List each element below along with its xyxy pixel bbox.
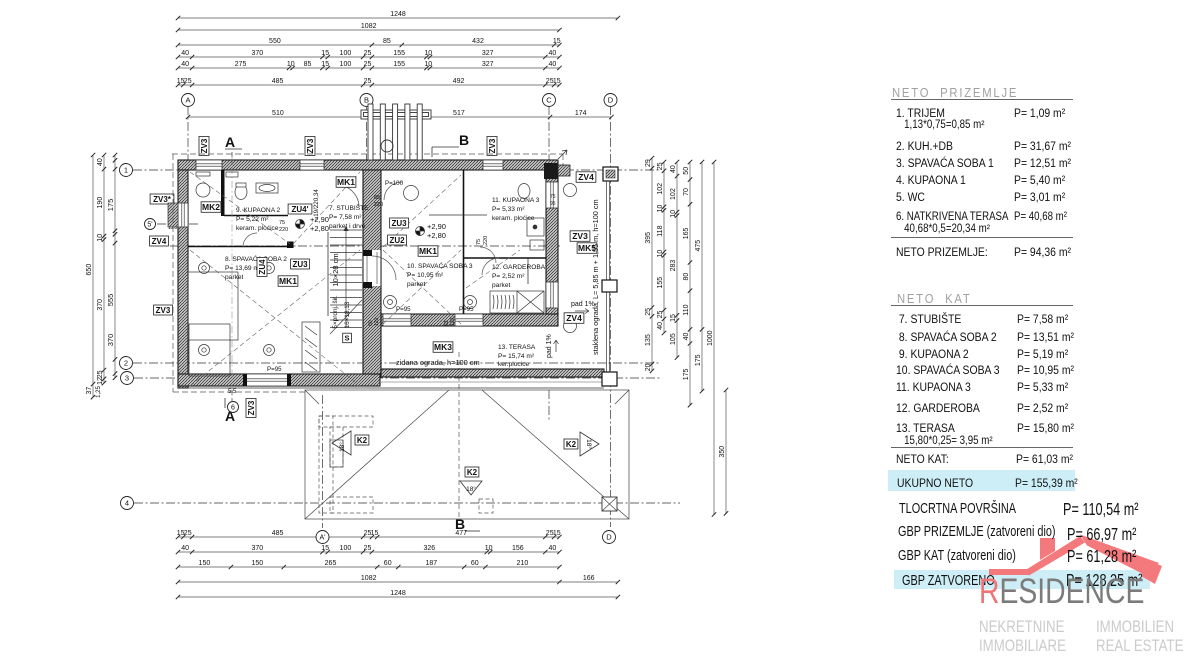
svg-text:S: S <box>344 334 349 343</box>
svg-text:1: 1 <box>124 166 128 175</box>
grid line B vertical <box>366 106 368 168</box>
svg-text:25: 25 <box>364 50 372 57</box>
grid bubble C top <box>543 94 556 107</box>
grid bubble 5p left <box>145 219 156 230</box>
residence logo roof <box>960 525 1200 595</box>
svg-text:120: 120 <box>374 317 380 326</box>
label MK1 stair <box>336 177 356 188</box>
svg-text:P= 5,22 m²: P= 5,22 m² <box>236 216 269 223</box>
bath3 door arc <box>480 247 496 263</box>
svg-text:1248: 1248 <box>390 11 406 18</box>
terrace outer edge lines <box>178 387 604 389</box>
svg-text:40: 40 <box>181 545 189 552</box>
window window bottom-left-1 <box>246 374 288 386</box>
svg-text:10: 10 <box>670 210 677 218</box>
svg-text:1,25: 1,25 <box>96 386 102 398</box>
svg-text:8. SPAVAĆA SOBA 2: 8. SPAVAĆA SOBA 2 <box>225 254 287 263</box>
stair door jamb black upper <box>363 250 372 256</box>
svg-text:370: 370 <box>251 50 263 57</box>
corner column top-right <box>544 163 558 179</box>
svg-text:40: 40 <box>670 165 677 173</box>
svg-text:10: 10 <box>657 205 664 213</box>
svg-text:10: 10 <box>424 50 432 57</box>
svg-text:10: 10 <box>657 250 664 258</box>
window ZV3 window top-3 <box>483 160 503 170</box>
svg-text:P= 10,95 m²: P= 10,95 m² <box>407 272 444 279</box>
svg-text:40: 40 <box>181 50 189 57</box>
label MK3 <box>433 342 453 353</box>
table rows prizemlje <box>896 106 945 120</box>
svg-text:B: B <box>364 96 369 105</box>
column D top <box>603 167 618 181</box>
svg-text:parket: parket <box>492 282 510 289</box>
window window P95-2 <box>455 314 483 326</box>
wall right building right wall <box>546 170 558 314</box>
grid bubble D top <box>604 94 617 107</box>
svg-text:6: 6 <box>231 405 235 412</box>
horizontal grid line 1 <box>133 169 660 171</box>
grid bubble 6 bottom <box>228 402 239 413</box>
svg-text:1000: 1000 <box>707 330 714 346</box>
svg-text:118: 118 <box>657 225 664 236</box>
svg-text:P=100: P=100 <box>385 180 404 187</box>
svg-text:MK3: MK3 <box>434 342 452 352</box>
wall bottom outer left building <box>178 374 380 386</box>
svg-text:A': A' <box>319 535 325 542</box>
svg-text:18°: 18° <box>585 439 593 449</box>
svg-text:102: 102 <box>670 188 677 200</box>
svg-text:166: 166 <box>583 575 595 582</box>
svg-text:P= 7,58 m²: P= 7,58 m² <box>329 214 362 221</box>
garderoba door arc <box>482 258 499 275</box>
grid bubble 2 left <box>120 357 133 370</box>
svg-text:326: 326 <box>423 545 435 552</box>
svg-text:517: 517 <box>453 110 465 117</box>
svg-text:60: 60 <box>471 560 479 567</box>
svg-text:P=95: P=95 <box>459 306 474 313</box>
wall right building bottom wall <box>381 314 558 326</box>
dim chain right3 <box>670 160 679 360</box>
room10 cross diagonal 2 <box>383 250 461 324</box>
svg-text:100: 100 <box>340 61 352 68</box>
svg-text:ZU4': ZU4' <box>291 205 308 214</box>
hall door arc <box>337 185 359 207</box>
label ZV3 left <box>154 305 173 315</box>
svg-text:B: B <box>455 516 465 532</box>
summary GBP KAT <box>898 548 1016 564</box>
svg-text:175: 175 <box>106 199 115 212</box>
hall diagonal <box>293 172 360 244</box>
roof overhang dashed outline left <box>172 154 174 392</box>
svg-text:+2,90: +2,90 <box>427 222 446 231</box>
window ZV3 window top-2 <box>300 160 324 170</box>
svg-text:ZU3: ZU3 <box>292 260 308 269</box>
svg-text:5': 5' <box>147 222 152 229</box>
dim row b2 <box>176 545 562 554</box>
svg-text:pad 1%: pad 1% <box>546 334 553 358</box>
stair left wall <box>327 232 329 316</box>
svg-text:parket: parket <box>225 274 243 281</box>
svg-text:10: 10 <box>485 545 493 552</box>
window window right ZV3 <box>546 182 558 208</box>
svg-text:275: 275 <box>235 61 247 68</box>
room10 lamp2 <box>464 296 477 309</box>
roller shutter box left exterior <box>168 203 178 227</box>
svg-text:25: 25 <box>184 78 192 85</box>
horizontal grid line 3 <box>134 377 660 379</box>
svg-text:11. KUPAONA 3: 11. KUPAONA 3 <box>492 197 540 204</box>
svg-text:staklena ograda, L= 5,85 m + 1: staklena ograda, L= 5,85 m + 1,55 m, h=1… <box>591 199 600 355</box>
svg-text:P=95: P=95 <box>396 306 411 313</box>
svg-text:175: 175 <box>695 354 702 366</box>
label MK2 <box>201 202 221 213</box>
label ZU4 rot <box>257 258 267 277</box>
dim chain 40-190-10-370-25 <box>97 153 106 385</box>
stair wall door gap <box>364 250 381 286</box>
stair door jamb black lower <box>363 282 372 288</box>
svg-text:15: 15 <box>321 50 329 57</box>
svg-text:K2: K2 <box>566 440 577 449</box>
dim row 40-370-15-100-25-155-10-327-40 <box>176 50 562 59</box>
svg-text:510: 510 <box>272 110 284 117</box>
svg-text:175: 175 <box>683 368 690 380</box>
svg-text:1248: 1248 <box>390 590 406 597</box>
horizontal grid line 4 / roof centre line <box>134 502 680 504</box>
area table NETO KAT header <box>897 292 972 306</box>
dim chain right5 <box>695 160 704 393</box>
svg-text:ZV3*: ZV3* <box>153 195 172 204</box>
svg-text:ZU3: ZU3 <box>391 219 407 228</box>
svg-text:18°: 18° <box>338 442 346 452</box>
pergola column circle <box>381 140 393 152</box>
svg-text:15: 15 <box>553 78 561 85</box>
svg-text:150: 150 <box>199 560 211 567</box>
grid bubble A top <box>182 94 195 107</box>
area table NETO PRIZEMLJE header <box>892 86 1018 100</box>
label MK5 <box>577 243 597 254</box>
dim row b5 <box>176 590 620 599</box>
svg-text:+2,80: +2,80 <box>427 231 446 240</box>
logo roof right foot <box>1141 560 1162 584</box>
label MK1 room10 <box>418 246 438 256</box>
svg-text:40: 40 <box>549 61 557 68</box>
svg-text:350: 350 <box>719 446 726 458</box>
K2 triangle left <box>332 431 351 455</box>
svg-text:37: 37 <box>86 387 93 395</box>
svg-text:135: 135 <box>645 334 652 346</box>
logo subtitle REAL ESTATE <box>1096 636 1183 656</box>
svg-text:P= 13,69 m²: P= 13,69 m² <box>225 265 262 272</box>
dim chain right1 <box>645 156 654 373</box>
svg-text:keram. ploćice: keram. ploćice <box>236 225 279 232</box>
label ZV3 top1 <box>199 137 209 156</box>
svg-text:165: 165 <box>683 227 690 239</box>
section line B-B vertical <box>458 352 460 519</box>
pergola rafters <box>368 104 373 160</box>
svg-text:190: 190 <box>97 197 104 209</box>
svg-text:100: 100 <box>340 50 352 57</box>
svg-text:parket i drvo: parket i drvo <box>329 223 366 230</box>
svg-text:40: 40 <box>181 61 189 68</box>
right margin circle <box>564 184 577 197</box>
label ZV3 top3 <box>487 137 497 156</box>
corner arrow top-right <box>558 150 567 159</box>
level marker right <box>416 227 425 236</box>
roof corner stub left <box>305 390 319 404</box>
wall node black square <box>287 242 294 249</box>
dim chain right2 <box>657 160 666 335</box>
svg-text:10: 10 <box>97 234 104 242</box>
garderoba circle <box>564 320 577 333</box>
svg-text:75: 75 <box>550 194 556 200</box>
svg-text:50: 50 <box>683 167 690 175</box>
label ZU3 right <box>390 218 409 228</box>
svg-text:ker.plocice: ker.plocice <box>498 361 529 368</box>
logo roof chimney <box>1040 538 1055 560</box>
svg-text:MK2: MK2 <box>202 202 220 212</box>
svg-text:P=95: P=95 <box>267 366 282 373</box>
svg-text:ZV3: ZV3 <box>572 231 588 241</box>
svg-text:187: 187 <box>425 560 437 567</box>
level marker left <box>296 220 305 229</box>
svg-text:15: 15 <box>321 545 329 552</box>
grid bubble B top <box>360 94 373 107</box>
roof corner stub right <box>615 390 629 404</box>
grid line C vertical <box>548 106 550 170</box>
pergola beam horizontal <box>361 110 431 119</box>
closet strip beside stair <box>302 322 320 372</box>
svg-text:395: 395 <box>645 232 652 244</box>
svg-text:40: 40 <box>97 158 104 166</box>
room8 dresser bottom-left <box>189 324 230 376</box>
partition below bath2 <box>188 246 290 248</box>
label K2 centre <box>465 467 479 477</box>
bath3 toilet <box>518 184 530 199</box>
entry door arc right building <box>384 182 402 200</box>
svg-text:174: 174 <box>575 110 587 117</box>
svg-text:15: 15 <box>321 61 329 68</box>
svg-text:10: 10 <box>287 61 295 68</box>
dim chain right6 <box>707 160 716 517</box>
svg-text:A: A <box>185 96 190 105</box>
label K2 right <box>564 439 578 449</box>
wall left outer <box>178 170 188 388</box>
svg-text:220: 220 <box>279 227 288 233</box>
svg-text:60: 60 <box>384 560 392 567</box>
room8 cross diagonal 1 <box>190 250 360 386</box>
logo subtitle NEKRETNINE <box>979 617 1064 637</box>
label ZV3 bottom <box>246 399 256 418</box>
dim row b4 <box>176 575 620 584</box>
column D middle <box>602 280 617 292</box>
highlighted UKUPNO NETO row <box>888 470 1075 491</box>
bath3 inner wall horizontal <box>429 214 487 216</box>
svg-text:15: 15 <box>553 530 561 537</box>
svg-text:ZU4: ZU4 <box>258 259 267 275</box>
svg-text:keram. ploćice: keram. ploćice <box>492 215 535 222</box>
partition room10/bath3 vertical <box>463 170 465 314</box>
label K2 left <box>355 435 369 445</box>
logo subtitle IMMOBILIEN <box>1096 617 1174 637</box>
window jamb blacks bottom wall <box>243 374 247 386</box>
svg-text:P= 15,74 m²: P= 15,74 m² <box>498 353 535 360</box>
bath2 toilet <box>235 185 247 200</box>
svg-text:10×28 cm: 10×28 cm <box>331 253 340 286</box>
svg-text:25: 25 <box>657 311 664 319</box>
residence logo word <box>979 574 1144 609</box>
highlighted GBP ZATVORENO row <box>894 570 1150 589</box>
svg-text:ZV3: ZV3 <box>156 306 171 315</box>
svg-text:D: D <box>608 96 614 105</box>
svg-text:370: 370 <box>106 334 115 347</box>
svg-text:370: 370 <box>251 545 263 552</box>
garderoba wardrobe <box>490 291 544 313</box>
grid bubble 1 left <box>120 164 133 177</box>
column D on centre line <box>602 497 617 511</box>
dim row 550-85-432-15 <box>176 38 562 47</box>
svg-text:ZV4: ZV4 <box>578 172 594 182</box>
svg-text:110: 110 <box>683 304 690 315</box>
svg-text:1082: 1082 <box>361 23 377 30</box>
svg-text:492: 492 <box>453 78 465 85</box>
dim chain 650+37 <box>86 153 95 400</box>
svg-text:ZV4: ZV4 <box>566 313 582 323</box>
svg-text:12. GARDEROBA: 12. GARDEROBA <box>492 264 546 271</box>
svg-text:75: 75 <box>476 239 482 245</box>
dim row 1082 <box>176 23 562 32</box>
svg-text:327: 327 <box>482 50 494 57</box>
svg-text:25: 25 <box>645 308 652 316</box>
column D bottom <box>602 372 617 386</box>
dim chain right7 <box>719 388 728 516</box>
svg-text:85: 85 <box>383 38 391 45</box>
svg-text:100: 100 <box>340 545 352 552</box>
dim row 510-517-174 <box>186 110 614 119</box>
horizontal grid line 2 <box>133 362 660 364</box>
grid line A vertical <box>187 106 189 163</box>
svg-text:85: 85 <box>304 61 312 68</box>
svg-text:18°: 18° <box>466 485 476 493</box>
svg-text:15: 15 <box>371 530 379 537</box>
logo roof eave bar <box>989 569 1029 575</box>
dim row 40-275-10-85-15-100-25-155-10-327-40 <box>176 61 562 70</box>
label ZU3 left <box>291 259 310 269</box>
svg-text:MK1: MK1 <box>419 246 437 256</box>
dim row b1 <box>176 530 562 539</box>
svg-text:85: 85 <box>374 195 380 201</box>
label S marker <box>343 333 352 343</box>
svg-text:210: 210 <box>517 560 529 567</box>
horizontal level line ZU2 <box>170 245 560 247</box>
svg-text:550: 550 <box>269 38 281 45</box>
svg-text:10. SPAVAĆA SOBA 3: 10. SPAVAĆA SOBA 3 <box>407 261 473 270</box>
wall middle double wall <box>363 170 381 374</box>
label ZV3 top2 <box>305 137 315 156</box>
section line A vertical dashes <box>231 152 233 165</box>
svg-text:P= 2,52 m²: P= 2,52 m² <box>492 273 525 280</box>
svg-text:370: 370 <box>97 299 104 311</box>
svg-text:70: 70 <box>683 188 690 196</box>
svg-text:K2: K2 <box>467 468 478 477</box>
logo subtitle IMMOBILIARE <box>979 636 1066 656</box>
svg-text:75: 75 <box>279 220 285 226</box>
bath3 shower wall <box>527 258 529 284</box>
svg-text:3: 3 <box>125 374 129 383</box>
roof overhang dashed outline right stub <box>562 154 564 172</box>
svg-text:ZV3: ZV3 <box>247 400 256 415</box>
wall zidana ograda terrace parapet <box>381 369 604 377</box>
svg-text:9. KUPAONA 2: 9. KUPAONA 2 <box>236 207 281 214</box>
svg-text:150: 150 <box>251 560 263 567</box>
svg-text:MK1: MK1 <box>337 177 355 187</box>
svg-text:K2: K2 <box>357 436 368 445</box>
svg-text:485: 485 <box>272 78 284 85</box>
summary GBP PRIZEMLJE <box>898 524 1056 540</box>
roof outline <box>305 390 629 519</box>
stair door swing <box>372 256 396 280</box>
bath2 sink <box>256 183 278 193</box>
svg-text:283: 283 <box>670 260 677 272</box>
svg-text:zidana ograda, h=100 cm: zidana ograda, h=100 cm <box>396 358 480 367</box>
grid line D vertical <box>610 106 612 527</box>
svg-text:155: 155 <box>657 277 664 289</box>
label ZV3 right <box>570 231 590 242</box>
svg-text:327: 327 <box>482 61 494 68</box>
bath2 cabinet <box>226 172 238 177</box>
dim row 15-25-485-25-492-25-15 <box>176 78 562 87</box>
left dimension block <box>86 153 117 400</box>
svg-text:155: 155 <box>393 61 405 68</box>
room10 cross diagonal 1 <box>383 250 461 324</box>
svg-text:25: 25 <box>184 530 192 537</box>
svg-text:19/220,34: 19/220,34 <box>313 189 320 217</box>
right wall lower window <box>546 282 558 308</box>
svg-text:10: 10 <box>424 61 432 68</box>
svg-text:A: A <box>225 134 235 150</box>
svg-text:ZV3: ZV3 <box>488 138 497 153</box>
bath2 shower <box>196 183 210 197</box>
svg-text:ZV3: ZV3 <box>306 138 315 153</box>
dim row b3 <box>176 560 562 569</box>
room10 lamp1 <box>384 296 397 309</box>
dim row 1248 <box>176 11 620 20</box>
bath2 wall vertical black <box>221 170 225 216</box>
svg-text:25: 25 <box>364 78 372 85</box>
svg-text:5.5: 5.5 <box>228 389 237 395</box>
svg-text:555: 555 <box>106 294 115 307</box>
right building lamp circle <box>404 186 419 201</box>
svg-text:16×18,13: 16×18,13 <box>344 301 351 328</box>
svg-text:7. STUBIŠTE: 7. STUBIŠTE <box>329 203 369 212</box>
room8 bed <box>188 272 238 340</box>
window ZV3* window left <box>178 203 188 227</box>
svg-text:40: 40 <box>657 322 664 330</box>
label MK1 room8 <box>278 276 298 287</box>
section A interior dash line <box>231 152 233 410</box>
wall stub right of building top <box>558 165 570 176</box>
label ZU2 <box>388 235 407 245</box>
svg-text:95: 95 <box>550 201 556 207</box>
bath2 diagonal <box>190 172 290 244</box>
bath2 partition horizontal <box>224 215 288 217</box>
svg-text:25: 25 <box>364 61 372 68</box>
svg-text:MK1: MK1 <box>279 276 297 286</box>
svg-text:432: 432 <box>472 38 484 45</box>
label ZV3* left <box>150 194 174 204</box>
svg-text:29: 29 <box>645 159 652 167</box>
svg-text:120: 120 <box>450 317 456 326</box>
grid bubble Aprime bottom <box>316 531 329 544</box>
